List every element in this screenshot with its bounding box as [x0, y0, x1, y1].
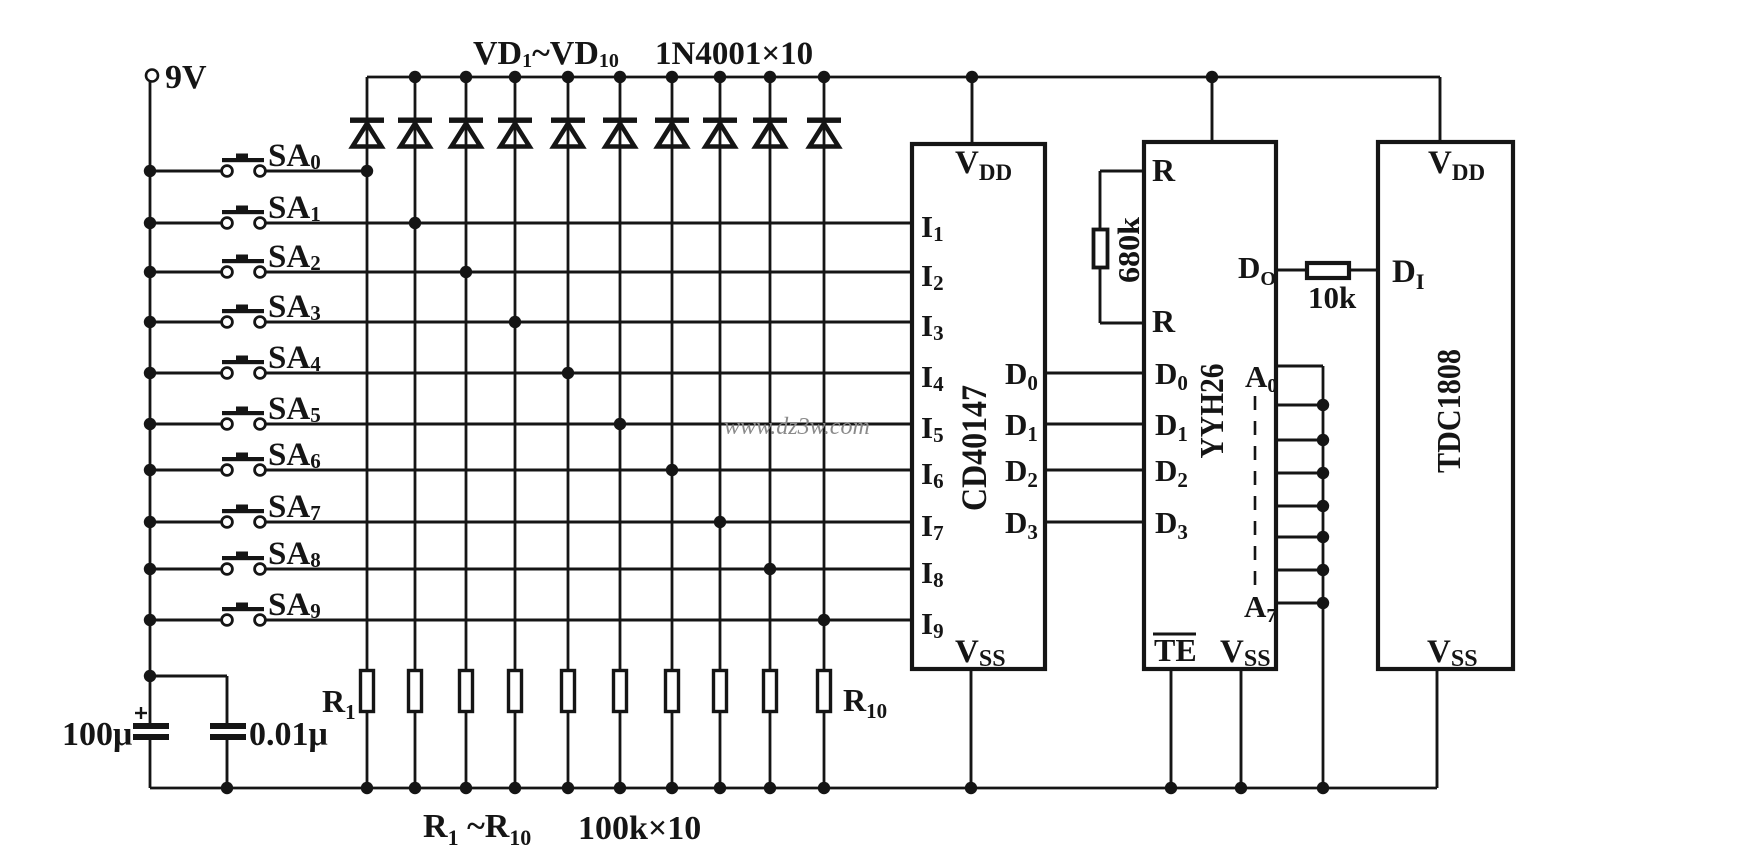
junction column 7 / row SA6: [666, 464, 678, 476]
junction bottom rail / address bus: [1317, 782, 1329, 794]
wire A4 to bus: [1276, 505, 1323, 508]
diode VD8 (1N4001): [703, 118, 737, 147]
label 1N4001 x10: [655, 36, 813, 72]
resistor R1: [361, 671, 374, 712]
label 0.01u: [249, 716, 328, 753]
label R1: [322, 683, 356, 724]
pin I3 label: [921, 308, 944, 345]
junction bus / A7: [1317, 597, 1329, 609]
capacitor C1 100u (polar): [133, 707, 169, 740]
junction bottom rail / column 3: [460, 782, 472, 794]
junction top bus / column 4: [509, 71, 521, 83]
junction bottom rail / column 7: [666, 782, 678, 794]
label SA7: [268, 489, 321, 525]
svg-text:VD1~VD10: VD1~VD10: [473, 35, 619, 72]
pin D3 label (YYH26): [1155, 505, 1188, 544]
wire TDC1808 VSS lead: [1436, 669, 1439, 788]
diode VD1 (1N4001): [350, 118, 384, 147]
svg-text:TE: TE: [1154, 632, 1197, 668]
pin R lower label: [1152, 303, 1176, 339]
label YYH26 name: [1194, 364, 1231, 459]
wire diode/resistor column 9: [769, 77, 772, 788]
label 9V: [165, 59, 207, 96]
junction bus / A4: [1317, 500, 1329, 512]
wire diode/resistor column 8: [719, 77, 722, 788]
pin D1 label (CD40147): [1005, 407, 1038, 446]
junction top bus / column 5: [562, 71, 574, 83]
wire diode/resistor column 4: [514, 77, 517, 788]
resistor R7: [666, 671, 679, 712]
wire A6 to bus: [1276, 569, 1323, 572]
svg-text:R: R: [1152, 152, 1176, 188]
junction bottom rail / YYH26 VSS: [1235, 782, 1247, 794]
junction top bus / column 8: [714, 71, 726, 83]
wire bottom ground rail: [150, 787, 1437, 790]
resistor R2: [409, 671, 422, 712]
resistor R8: [714, 671, 727, 712]
pin I8 label: [921, 555, 944, 592]
label 10k: [1308, 280, 1357, 315]
label SA4: [268, 340, 321, 376]
pin A0 label: [1245, 359, 1277, 397]
resistor R9: [764, 671, 777, 712]
junction column 2 / row SA1: [409, 217, 421, 229]
wire D0 bus CD40147 to YYH26: [1045, 372, 1144, 375]
junction top bus / column 2: [409, 71, 421, 83]
junction column 4 / row SA3: [509, 316, 521, 328]
junction top bus / column 6: [614, 71, 626, 83]
wire DI lead: [1350, 269, 1378, 272]
junction top bus / column 9: [764, 71, 776, 83]
wire D2 bus CD40147 to YYH26: [1045, 469, 1144, 472]
junction column 9 / row SA8: [764, 563, 776, 575]
svg-text:www.dz3w.com: www.dz3w.com: [724, 414, 870, 440]
label SA5: [268, 391, 321, 427]
junction bottom rail / column 8: [714, 782, 726, 794]
diode VD7 (1N4001): [655, 118, 689, 147]
pin D3 label (CD40147): [1005, 505, 1038, 544]
label SA1: [268, 190, 321, 226]
junction top bus / column 3: [460, 71, 472, 83]
resistor R10: [818, 671, 831, 712]
wire YYH26 VDD lead: [1211, 77, 1214, 142]
pin I5 label: [921, 410, 944, 447]
switch SA3 pushbutton: [150, 305, 912, 328]
junction column 5 / row SA4: [562, 367, 574, 379]
switch SA2 pushbutton: [150, 255, 912, 278]
pin I9 label: [921, 606, 944, 643]
junction bottom rail / CD40147 VSS: [965, 782, 977, 794]
switch SA7 pushbutton: [150, 505, 912, 528]
label R1~R10 value group: [423, 808, 531, 850]
wire A3 to bus: [1276, 472, 1323, 475]
pin I7 label: [921, 508, 944, 545]
wire diode/resistor column 5: [567, 77, 570, 788]
resistor 10k: [1307, 263, 1349, 278]
svg-text:0.01μ: 0.01μ: [249, 716, 328, 753]
switch SA8 pushbutton: [150, 552, 912, 575]
pin TE label with overline: [1153, 632, 1197, 668]
pin D1 label (YYH26): [1155, 407, 1188, 446]
dashed A0-A7 range line: [1254, 396, 1257, 590]
svg-text:CD40147: CD40147: [954, 385, 994, 511]
junction bottom rail / column 5: [562, 782, 574, 794]
label TDC1808 VDD: [1428, 145, 1485, 185]
junction column 3 / row SA2: [460, 266, 472, 278]
switch SA5 pushbutton: [150, 407, 912, 430]
wire A0 to bus: [1276, 365, 1323, 368]
wire R upper lead: [1100, 171, 1144, 228]
junction bottom rail / 0.01u cap: [221, 782, 233, 794]
diode VD2 (1N4001): [398, 118, 432, 147]
wire diode/resistor column 2: [414, 77, 417, 788]
wire A2 to bus: [1276, 439, 1323, 442]
pin D2 label (YYH26): [1155, 453, 1188, 492]
pin DI label: [1392, 254, 1424, 294]
resistor R6: [614, 671, 627, 712]
svg-text:1N4001×10: 1N4001×10: [655, 36, 813, 72]
junction left rail / SA5 row: [144, 418, 156, 430]
pin A7 label: [1244, 589, 1276, 627]
wire DO lead: [1276, 269, 1305, 272]
junction left rail / SA8 row: [144, 563, 156, 575]
wire address bus vertical: [1322, 366, 1325, 788]
label SA8: [268, 536, 321, 572]
resistor R5: [562, 671, 575, 712]
junction bus / A6: [1317, 564, 1329, 576]
switch SA9 pushbutton: [150, 603, 912, 626]
label SA2: [268, 239, 321, 275]
op-chip U1 CD40147 box: [912, 144, 1045, 669]
pin R upper label: [1152, 152, 1176, 188]
wire CD40147 VSS lead: [970, 669, 973, 788]
pin I2 label: [921, 258, 944, 295]
label R10: [843, 682, 887, 723]
svg-text:9V: 9V: [165, 59, 207, 96]
junction bottom rail / TE wire: [1165, 782, 1177, 794]
svg-text:680k: 680k: [1111, 216, 1146, 283]
diode VD9 (1N4001): [753, 118, 787, 147]
node 9V terminal: [146, 70, 158, 82]
wire D3 bus CD40147 to YYH26: [1045, 521, 1144, 524]
junction left rail / SA2 row: [144, 266, 156, 278]
label 100k x10: [578, 810, 701, 847]
junction bus / A5: [1317, 531, 1329, 543]
junction left rail / capacitor branch: [144, 670, 156, 682]
label 680k: [1111, 216, 1146, 283]
label CD40147 VDD: [955, 145, 1012, 185]
resistor 680k: [1094, 230, 1108, 268]
junction column 1 / row SA0: [361, 165, 373, 177]
junction bus / A1: [1317, 399, 1329, 411]
op-chip U3 TDC1808 box: [1378, 142, 1513, 669]
wire diode/resistor column 6: [619, 77, 622, 788]
op-chip U2 YYH26 box: [1144, 142, 1276, 669]
resistor R4: [509, 671, 522, 712]
wire TE lead: [1170, 669, 1173, 788]
pin D0 label (CD40147): [1005, 356, 1038, 395]
wire top supply bus: [367, 76, 1440, 79]
wire A1 to bus: [1276, 404, 1323, 407]
wire cap branch horizontal: [150, 675, 227, 678]
junction left rail / SA7 row: [144, 516, 156, 528]
label CD40147 name: [954, 385, 994, 511]
junction column 8 / row SA7: [714, 516, 726, 528]
diode VD10 (1N4001): [807, 118, 841, 147]
junction left rail / SA6 row: [144, 464, 156, 476]
wire 0.01u top lead: [226, 676, 229, 724]
pin I1 label: [921, 209, 944, 246]
svg-text:YYH26: YYH26: [1194, 364, 1231, 459]
wire diode/resistor column 7: [671, 77, 674, 788]
label SA9: [268, 587, 321, 623]
junction top bus / column 7: [666, 71, 678, 83]
svg-text:10k: 10k: [1308, 280, 1357, 315]
wire diode/resistor column 3: [465, 77, 468, 788]
wire left +9V rail (upper): [149, 80, 152, 724]
junction left rail / SA4 row: [144, 367, 156, 379]
junction bottom rail / column 9: [764, 782, 776, 794]
label SA6: [268, 437, 321, 473]
wire diode/resistor column 10: [823, 77, 826, 788]
junction top bus / column 10: [818, 71, 830, 83]
junction left rail / SA1 row: [144, 217, 156, 229]
wire A5 to bus: [1276, 536, 1323, 539]
label SA3: [268, 289, 321, 325]
svg-text:100k×10: 100k×10: [578, 810, 701, 847]
label 100u: [62, 716, 132, 753]
junction bottom rail / column 2: [409, 782, 421, 794]
label TDC1808 name: [1431, 349, 1468, 473]
capacitor C2 0.01u: [210, 723, 246, 740]
wire D1 bus CD40147 to YYH26: [1045, 423, 1144, 426]
wire diode/resistor column 1: [366, 77, 369, 788]
junction bottom rail / column 6: [614, 782, 626, 794]
watermark: [724, 414, 870, 440]
junction column 10 / row SA9: [818, 614, 830, 626]
wire YYH26 VSS lead: [1240, 669, 1243, 788]
junction bus / A3: [1317, 467, 1329, 479]
junction left rail / SA3 row: [144, 316, 156, 328]
label VD1~VD10: [473, 35, 619, 72]
wire CD40147 VDD lead: [971, 77, 974, 144]
switch SA0 pushbutton: [150, 154, 367, 177]
wire 0.01u bottom lead: [226, 740, 229, 788]
resistor R3: [460, 671, 473, 712]
switch SA6 pushbutton: [150, 453, 912, 476]
diode VD6 (1N4001): [603, 118, 637, 147]
switch SA4 pushbutton: [150, 356, 912, 379]
diode VD3 (1N4001): [449, 118, 483, 147]
junction column 6 / row SA5: [614, 418, 626, 430]
junction left rail / SA9 row: [144, 614, 156, 626]
diode VD5 (1N4001): [551, 118, 585, 147]
wire A7 to bus: [1276, 602, 1323, 605]
svg-text:100μ: 100μ: [62, 716, 132, 753]
junction top bus / YYH26 VDD: [1206, 71, 1218, 83]
label CD40147 VSS: [955, 634, 1006, 672]
pin D2 label (CD40147): [1005, 453, 1038, 492]
junction bottom rail / column 4: [509, 782, 521, 794]
junction left rail / SA0 row: [144, 165, 156, 177]
pin D0 label (YYH26): [1155, 356, 1188, 395]
switch SA1 pushbutton: [150, 206, 912, 229]
wire R lower lead: [1100, 269, 1144, 323]
junction bottom rail / column 1: [361, 782, 373, 794]
label YYH26 VSS: [1220, 634, 1271, 672]
svg-text:TDC1808: TDC1808: [1431, 349, 1468, 473]
diode VD4 (1N4001): [498, 118, 532, 147]
junction bottom rail / column 10: [818, 782, 830, 794]
pin I6 label: [921, 456, 944, 493]
junction top bus / CD40147 VDD: [966, 71, 978, 83]
pin I4 label: [921, 359, 944, 396]
label SA0: [268, 138, 321, 174]
wire left rail (below 100u cap): [149, 739, 152, 788]
svg-text:R: R: [1152, 303, 1176, 339]
label TDC1808 VSS: [1427, 634, 1478, 672]
wire TDC1808 VDD lead: [1439, 77, 1442, 142]
junction bus / A2: [1317, 434, 1329, 446]
pin DO label: [1238, 250, 1276, 290]
